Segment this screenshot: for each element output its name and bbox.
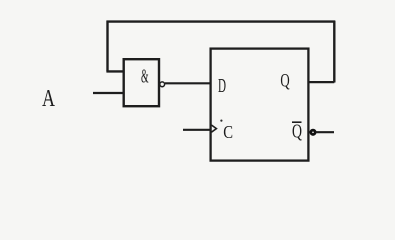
paper background [0, 0, 395, 175]
gate U1 NAND box [124, 59, 159, 106]
wire: left feedback vertical [106, 21, 108, 72]
svg-text:Q: Q [292, 122, 302, 143]
svg-text:C: C [223, 122, 233, 142]
wire: top feedback horizontal [107, 20, 336, 22]
pin Qbar bubble [311, 130, 315, 134]
wire: into NAND top input [106, 70, 124, 72]
Qbar overline [292, 121, 302, 123]
wire: A input [93, 92, 124, 94]
wire: right feedback vertical [333, 21, 335, 83]
svg-text:&: & [141, 66, 149, 87]
wire: Qbar output stub [316, 131, 334, 133]
svg-text:Q: Q [280, 71, 289, 92]
svg-text:A: A [42, 85, 55, 112]
wire: C clock input [183, 129, 211, 131]
speck above C [220, 120, 222, 122]
wire: NAND output to D input [165, 82, 211, 84]
wire: Q output to right feedback [309, 81, 335, 83]
svg-text:D: D [218, 75, 226, 97]
pin C clock triangle [211, 125, 216, 132]
flip-flop U2 box [211, 49, 309, 161]
gate U1 output bubble [160, 82, 165, 87]
